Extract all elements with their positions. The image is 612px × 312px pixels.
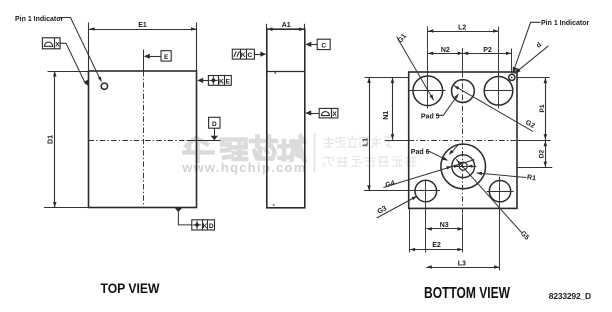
bottom-left circle	[415, 180, 437, 202]
watermark divider	[314, 133, 316, 172]
pad 6 outer circle	[441, 144, 486, 189]
svg-text:K: K	[241, 52, 246, 59]
datum D baseline	[187, 140, 221, 142]
svg-text:Pad 5: Pad 5	[421, 114, 440, 121]
svg-text:N2: N2	[441, 47, 450, 54]
svg-text:Pad 6: Pad 6	[411, 149, 430, 156]
dimension A1	[266, 24, 268, 29]
svg-text:E1: E1	[138, 22, 147, 29]
pad hole 3 (top-right circle)	[484, 77, 513, 106]
svg-text:R1: R1	[526, 174, 536, 182]
bottom view vertical centerline	[462, 48, 464, 72]
leader R1	[477, 173, 527, 178]
feature frame diamond-K-E (right)	[197, 78, 203, 83]
leader G4	[383, 160, 474, 188]
feature frame parallel-K-C (left)	[232, 49, 254, 59]
leader G2	[454, 86, 533, 132]
dimension P1	[545, 78, 547, 140]
watermark right text line1	[324, 137, 416, 167]
svg-text:E2: E2	[432, 242, 441, 249]
side view pin1 dot	[275, 72, 277, 74]
side view lid seam	[267, 71, 305, 73]
pin 1 indicator circle (bottom view)	[511, 49, 513, 74]
dimension D1	[54, 71, 56, 208]
watermark hqchip	[185, 137, 305, 162]
top view body outline	[89, 71, 197, 208]
svg-text:N3: N3	[440, 222, 449, 229]
svg-text:L2: L2	[458, 25, 466, 32]
pin 1 indicator circle	[101, 83, 107, 89]
datum leader bottom (top view)	[175, 208, 182, 212]
pad 6 inner circle	[459, 162, 467, 170]
svg-text:K: K	[203, 223, 208, 230]
dimension L3	[426, 267, 499, 269]
svg-text:8233292_D: 8233292_D	[549, 291, 591, 301]
svg-text:X: X	[332, 111, 337, 118]
svg-text:D: D	[209, 223, 214, 230]
feature frame profile-X (top left)	[42, 38, 60, 49]
svg-text:P1: P1	[539, 104, 546, 112]
dimension L1	[369, 78, 371, 191]
leader d	[515, 46, 549, 73]
svg-text:Pin 1 Indicator: Pin 1 Indicator	[15, 16, 64, 23]
dimension N1	[392, 78, 394, 140]
pad 6 crosshair with arrows	[452, 166, 477, 168]
bottom view horizontal centerline	[385, 140, 409, 142]
svg-text:Pin 1 Indicator: Pin 1 Indicator	[541, 20, 590, 27]
svg-text:X: X	[55, 42, 60, 49]
svg-text:K: K	[219, 78, 224, 85]
bottom-right circle	[489, 181, 510, 202]
pad 6 middle circle	[452, 155, 475, 178]
pin 1 leader wire	[60, 18, 101, 81]
datum D symbol	[209, 117, 220, 128]
svg-text:www.hqchip.com: www.hqchip.com	[181, 160, 306, 175]
datum flag C (right)	[305, 42, 311, 47]
pad hole 1 (top-left circle)	[413, 76, 443, 106]
leader G1	[397, 37, 434, 101]
feature frame profile-X (right)	[305, 110, 311, 115]
svg-text:L3: L3	[458, 260, 466, 267]
dimension E1	[89, 29, 197, 31]
svg-text:E: E	[164, 54, 169, 61]
dimension N3	[426, 228, 463, 230]
leader G5	[456, 159, 521, 232]
svg-text:C: C	[321, 42, 326, 49]
svg-text:E: E	[225, 78, 230, 85]
short leader arrow at pad 6 outer circle	[452, 145, 458, 153]
dimension N2 P2	[428, 53, 512, 55]
svg-text:A1: A1	[282, 22, 291, 29]
leader G3	[377, 196, 418, 218]
bottom view body outline	[409, 72, 517, 208]
svg-text:L1: L1	[363, 138, 370, 146]
svg-text:BOTTOM VIEW: BOTTOM VIEW	[424, 285, 510, 302]
datum flag E on centerline	[144, 54, 150, 59]
leader wire to left edge	[60, 43, 86, 84]
dimension E2	[410, 249, 463, 251]
dimension L2	[428, 31, 499, 33]
side view body outline	[267, 29, 305, 208]
dimension D2	[545, 141, 547, 168]
svg-text:D: D	[212, 121, 217, 128]
feature frame diamond-K-D (bottom)	[192, 220, 215, 230]
pad 5 hole (top-middle circle)	[452, 80, 475, 103]
svg-text:P2: P2	[483, 47, 492, 54]
top view vertical centerline	[143, 50, 145, 72]
svg-text:C: C	[248, 52, 253, 59]
top view horizontal centerline	[89, 140, 197, 142]
svg-text:N1: N1	[383, 111, 390, 120]
svg-text:D2: D2	[539, 149, 546, 158]
svg-text:TOP VIEW: TOP VIEW	[101, 281, 160, 296]
svg-text:D1: D1	[47, 135, 54, 144]
